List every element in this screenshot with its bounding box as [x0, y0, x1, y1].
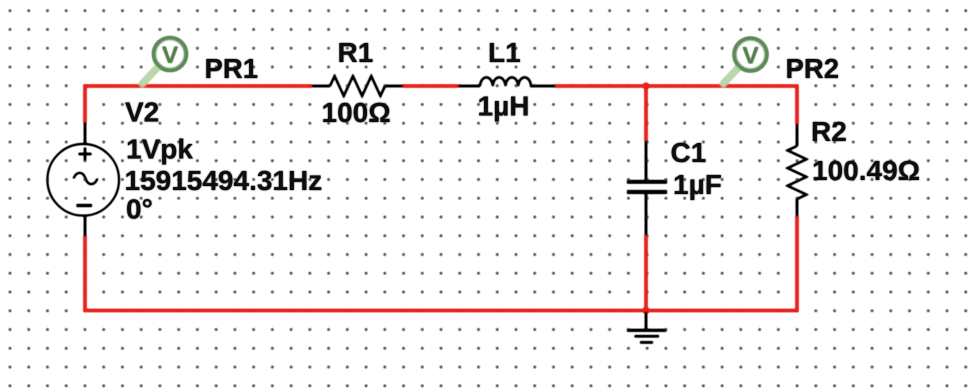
svg-text:C1: C1	[671, 137, 707, 168]
svg-text:PR2: PR2	[786, 53, 840, 84]
svg-text:15915494.31Hz: 15915494.31Hz	[125, 165, 323, 196]
svg-text:100Ω: 100Ω	[322, 97, 391, 128]
svg-text:100.49Ω: 100.49Ω	[812, 155, 920, 186]
node junction bottom (ground tap on bottom wire)	[643, 307, 650, 314]
svg-text:L1: L1	[488, 37, 521, 68]
probe PR1 magnifier	[143, 38, 187, 84]
wire between R1 and L1	[403, 84, 459, 87]
svg-text:1µH: 1µH	[478, 91, 530, 122]
ground	[627, 312, 666, 343]
capacitor C1	[627, 141, 667, 236]
node junction top (C1 tap on top wire)	[643, 83, 650, 90]
svg-text:PR1: PR1	[205, 53, 259, 84]
resistor R1	[312, 76, 404, 96]
svg-text:V: V	[162, 42, 179, 69]
svg-text:0°: 0°	[126, 193, 153, 224]
svg-text:R2: R2	[811, 116, 847, 147]
svg-text:R1: R1	[338, 37, 374, 68]
probe PR2 magnifier	[724, 39, 767, 84]
wire C1 branch top	[644, 86, 647, 141]
svg-text:V2: V2	[125, 96, 159, 127]
wire top-left corner and top segment to R1	[85, 86, 312, 122]
svg-text:1Vpk: 1Vpk	[126, 134, 193, 165]
resistor R2	[788, 124, 807, 217]
svg-text:V: V	[742, 42, 759, 69]
wire bottom segment from junction to bottom-left corner up to source	[85, 236, 648, 311]
wire C1 branch bottom	[644, 235, 647, 310]
inductor L1	[458, 77, 556, 86]
wire from L1 to top-right corner down to R2	[555, 86, 797, 124]
svg-text:1µF: 1µF	[673, 169, 722, 200]
voltage source V2	[47, 122, 119, 237]
wire from R2 down along right side and bottom to junction	[644, 216, 797, 311]
